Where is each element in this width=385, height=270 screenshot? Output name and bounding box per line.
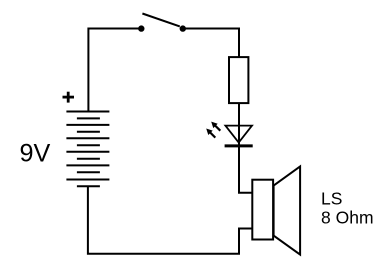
svg-text:8 Ohm: 8 Ohm xyxy=(321,208,374,228)
svg-text:LS: LS xyxy=(321,188,342,208)
svg-text:9V: 9V xyxy=(20,139,51,167)
